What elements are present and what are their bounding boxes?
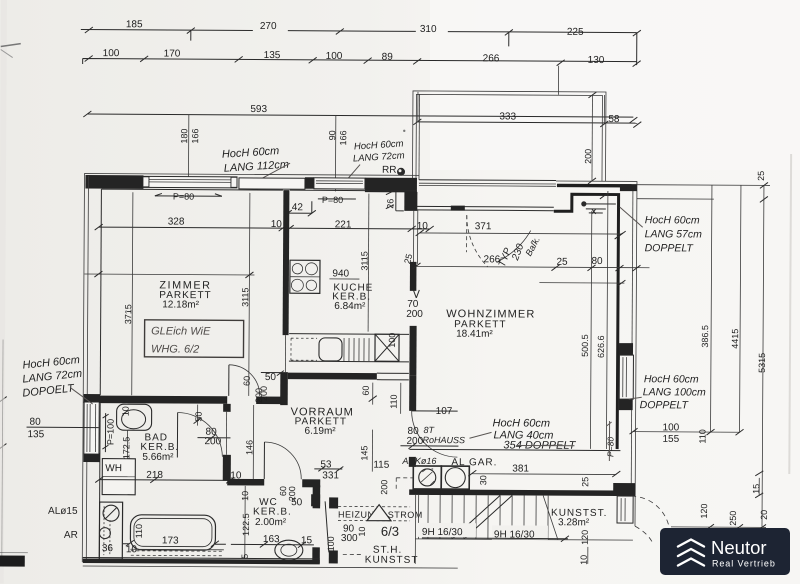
- 172.5: [126, 430, 128, 462]
- washbasin counter: [99, 502, 122, 559]
- dashed balcony door opening: [466, 215, 468, 252]
- svg-text:3115: 3115: [359, 251, 369, 270]
- top dimension row 1: [81, 19, 641, 65]
- bottom thick wall under wohnzimmer: [409, 489, 617, 496]
- svg-text:110: 110: [134, 524, 144, 538]
- svg-text:185: 185: [126, 19, 143, 30]
- svg-text:6.84m²: 6.84m²: [334, 301, 366, 312]
- svg-text:163: 163: [263, 534, 280, 545]
- niche line + AL GAR: [409, 449, 620, 490]
- bad right wall: [223, 404, 231, 481]
- wohnzimmer: [411, 190, 649, 449]
- svg-text:P=80: P=80: [605, 437, 615, 457]
- svg-text:80: 80: [591, 256, 603, 267]
- kitchen door dim 70/200: [413, 290, 419, 298]
- left exterior wall: [82, 176, 101, 562]
- svg-text:328: 328: [168, 216, 185, 227]
- svg-text:DOPPELT: DOPPELT: [645, 242, 695, 254]
- svg-text:ANKø16: ANKø16: [401, 456, 436, 466]
- svg-text:25: 25: [556, 257, 568, 268]
- svg-text:2.00m²: 2.00m²: [255, 517, 287, 528]
- vorraum-wc wall: [227, 479, 264, 486]
- svg-text:626.6: 626.6: [596, 335, 606, 358]
- svg-text:110: 110: [389, 394, 399, 408]
- svg-text:60: 60: [242, 376, 252, 386]
- wc toilet: [275, 540, 303, 560]
- 266 / 25 / 80 dim line: [416, 266, 649, 267]
- svg-text:300: 300: [341, 533, 358, 544]
- svg-text:200: 200: [379, 480, 389, 495]
- svg-text:RοHAUSS: RοHAUSS: [422, 435, 465, 445]
- svg-text:30: 30: [478, 475, 488, 485]
- chevrons: [678, 540, 704, 566]
- svg-text:P=80: P=80: [322, 195, 343, 205]
- svg-text:166: 166: [190, 129, 200, 144]
- P=80 label window2: [318, 195, 356, 205]
- svg-text:25: 25: [580, 477, 590, 487]
- toilet at top: [117, 404, 152, 430]
- svg-text:GLEich WiE: GLEich WiE: [151, 325, 211, 337]
- svg-text:18.41m²: 18.41m²: [456, 329, 493, 340]
- svg-text:221: 221: [335, 219, 352, 230]
- svg-text:90: 90: [327, 130, 337, 140]
- svg-text:500.5: 500.5: [580, 334, 590, 357]
- bad: [95, 404, 255, 560]
- svg-text:172.5: 172.5: [121, 437, 131, 460]
- niche 26 at kitchen corner: [385, 191, 415, 265]
- 371 dim: [420, 233, 622, 234]
- svg-text:15: 15: [301, 535, 313, 546]
- zimmer-kueche wall: [283, 190, 290, 335]
- svg-text:371: 371: [475, 221, 492, 232]
- svg-text:4415: 4415: [730, 329, 740, 349]
- svg-text:170: 170: [164, 48, 181, 59]
- zimmer window: [143, 176, 237, 188]
- svg-text:166: 166: [338, 130, 348, 145]
- svg-text:10: 10: [271, 219, 283, 230]
- svg-text:146: 146: [244, 440, 254, 455]
- svg-text:HοcH 60cm: HοcH 60cm: [644, 373, 699, 385]
- parapet white box: [239, 178, 305, 189]
- stove: [290, 260, 320, 293]
- zimmer bottom wall / bad top wall: [100, 364, 282, 404]
- wohnzimmer top-right recess outer: [552, 181, 637, 526]
- svg-text:386.5: 386.5: [700, 325, 710, 348]
- top dimension row 2: [83, 48, 641, 67]
- svg-text:WH: WH: [105, 463, 122, 474]
- svg-text:120: 120: [699, 503, 709, 518]
- stairwell landing: [83, 476, 459, 568]
- 145: [371, 430, 373, 472]
- bathtub: [130, 515, 215, 550]
- loggia kunstst: [551, 496, 670, 566]
- svg-text:270: 270: [260, 21, 277, 32]
- svg-text:940: 940: [332, 268, 349, 279]
- right margin dims: [605, 170, 771, 530]
- vorraum left wall: [280, 372, 288, 405]
- svg-text:266: 266: [483, 53, 500, 64]
- svg-text:3115: 3115: [240, 288, 250, 307]
- zimmer room: [84, 192, 434, 397]
- 50 rot + 80/200: [197, 405, 199, 426]
- svg-text:10: 10: [126, 544, 138, 555]
- bad door: [177, 413, 222, 457]
- handwritten notes top: [221, 137, 405, 186]
- right wall white band + details: [613, 184, 637, 523]
- svg-text:333: 333: [499, 111, 516, 122]
- vorraum-wohnzimmer wall lower: [409, 376, 417, 467]
- handwritten TYP 230 scribble: [497, 235, 542, 269]
- svg-text:115: 115: [373, 460, 389, 471]
- svg-text:25: 25: [756, 171, 766, 181]
- left wall window (bad): [84, 394, 101, 403]
- svg-text:20: 20: [759, 510, 769, 520]
- top dimension row 3: 593: [83, 103, 637, 123]
- svg-text:218: 218: [146, 470, 163, 481]
- stairs hatching: [415, 495, 633, 542]
- vertical dim lines: [132, 192, 250, 396]
- dimension row 4: 333 / 58: [413, 111, 641, 128]
- svg-text:3715: 3715: [123, 304, 133, 324]
- top wall inner face: [101, 189, 416, 191]
- kueche-vorraum wall: [288, 373, 409, 380]
- svg-text:HocH 60cm: HocH 60cm: [493, 417, 551, 429]
- logo group (not rotated): [660, 528, 790, 575]
- left margin: [0, 339, 99, 560]
- svg-text:KUNSTST: KUNSTST: [365, 555, 419, 566]
- 218 dim: [99, 479, 230, 482]
- horizontal connector in zimmer: [84, 273, 254, 276]
- svg-text:200: 200: [259, 386, 269, 401]
- svg-text:HοcH 60cm: HοcH 60cm: [645, 214, 700, 226]
- svg-text:P=80: P=80: [173, 191, 194, 201]
- svg-text:Real Vertrieb: Real Vertrieb: [712, 559, 776, 569]
- svg-text:42: 42: [292, 202, 304, 213]
- svg-text:130: 130: [588, 55, 605, 66]
- wc door arc: [264, 442, 301, 479]
- svg-text:15: 15: [751, 484, 761, 494]
- 53 / 331: [314, 466, 343, 471]
- svg-text:200: 200: [406, 309, 423, 320]
- handwritten hoch/lang middle: [469, 417, 576, 452]
- svg-text:89: 89: [382, 52, 394, 63]
- svg-text:122.5: 122.5: [241, 513, 251, 536]
- balcony outline top right: [412, 91, 606, 181]
- svg-text:100: 100: [103, 48, 120, 59]
- svg-text:250: 250: [728, 511, 738, 526]
- svg-text:LANG 57cm: LANG 57cm: [645, 228, 703, 240]
- svg-text:593: 593: [250, 104, 267, 115]
- svg-text:LANG 100cm: LANG 100cm: [643, 386, 706, 398]
- kitchen window: [314, 178, 365, 189]
- balcony door glazing band: [419, 180, 556, 187]
- dims right side of bad: [245, 405, 254, 559]
- svg-text:145: 145: [359, 446, 369, 461]
- svg-text:10: 10: [240, 491, 250, 501]
- svg-text:155: 155: [662, 434, 679, 445]
- svg-text:AR: AR: [64, 530, 78, 541]
- svg-text:80: 80: [30, 417, 42, 428]
- zimmer door arc: [229, 365, 260, 396]
- entrance door: [311, 494, 320, 506]
- svg-text:6.19m²: 6.19m²: [304, 426, 336, 437]
- svg-text:8T: 8T: [424, 425, 436, 435]
- svg-text:60: 60: [361, 386, 371, 396]
- wohnzimmer top wall thin double line: [417, 205, 554, 211]
- 42 pier dimension: [284, 199, 316, 216]
- handwritten box: [144, 320, 243, 358]
- svg-text:180: 180: [179, 128, 189, 143]
- svg-text:173: 173: [162, 535, 179, 546]
- svg-text:100: 100: [663, 422, 680, 433]
- svg-text:53: 53: [320, 459, 332, 470]
- svg-text:110: 110: [697, 429, 707, 443]
- wc + bottom walls: [227, 442, 321, 564]
- svg-text:9H 16/30: 9H 16/30: [422, 527, 463, 538]
- svg-text:200: 200: [406, 436, 423, 447]
- kitchen-wohnzimmer wall: [406, 210, 424, 376]
- svg-text:26: 26: [385, 199, 395, 209]
- svg-text:200: 200: [287, 486, 297, 501]
- svg-text:107: 107: [436, 406, 453, 417]
- svg-text:WHG. 6/2: WHG. 6/2: [151, 343, 199, 355]
- svg-text:RR: RR: [382, 165, 397, 176]
- kueche: [289, 193, 410, 362]
- svg-text:ALø15: ALø15: [48, 506, 78, 517]
- svg-text:381: 381: [512, 463, 529, 474]
- washing machines: [413, 466, 441, 489]
- svg-text:100: 100: [326, 536, 336, 551]
- svg-text:120: 120: [580, 530, 590, 545]
- svg-text:12.18m²: 12.18m²: [162, 299, 199, 310]
- svg-text:50: 50: [265, 372, 277, 383]
- svg-text:58: 58: [608, 114, 620, 125]
- P=100 vertical at window: [104, 413, 106, 452]
- svg-text:5315: 5315: [757, 353, 767, 373]
- level mark in recess: [581, 201, 586, 206]
- dotted strip above bottom wall: [131, 551, 223, 556]
- right wall window: [619, 355, 633, 399]
- svg-text:225: 225: [567, 27, 584, 38]
- svg-text:KER.B.: KER.B.: [253, 506, 292, 517]
- svg-text:10: 10: [121, 406, 131, 416]
- svg-text:135: 135: [27, 429, 44, 440]
- wohnzimmer door from vorraum: [411, 411, 457, 457]
- window below bottom wall: [617, 496, 633, 523]
- svg-text:10: 10: [357, 527, 367, 537]
- rotated dims 180/166: [179, 90, 597, 184]
- interior vertical dims 500.5 / 626.6: [590, 191, 607, 449]
- svg-text:3.28m²: 3.28m²: [558, 517, 590, 528]
- svg-text:5.66m²: 5.66m²: [142, 452, 174, 463]
- lower right dims: [671, 526, 766, 529]
- svg-text:310: 310: [420, 24, 437, 35]
- svg-text:6/3: 6/3: [381, 524, 399, 539]
- svg-text:100: 100: [326, 51, 343, 62]
- vertical dim: [367, 194, 370, 332]
- svg-text:135: 135: [264, 50, 281, 61]
- top exterior wall: outer line: [84, 173, 419, 191]
- 100/155 line: [634, 431, 740, 434]
- bottom wall left part: [83, 557, 320, 564]
- vorraum: [258, 370, 465, 495]
- wc right wall: [313, 485, 321, 508]
- svg-text:DOPPELT: DOPPELT: [640, 399, 690, 411]
- WH boxes: [102, 459, 135, 495]
- svg-text:200: 200: [583, 149, 593, 164]
- dims: [231, 543, 314, 545]
- lower counter: sink / drainer / X: [289, 333, 409, 336]
- dashed exterior door swing: [631, 496, 670, 535]
- svg-text:331: 331: [322, 470, 339, 481]
- svg-text:Neutor: Neutor: [711, 537, 767, 558]
- svg-text:36: 36: [102, 543, 114, 554]
- P=80 label window1: [155, 191, 222, 201]
- top wall piers (dark): [85, 175, 143, 189]
- svg-text:100: 100: [387, 333, 397, 348]
- window axis extension lines: [188, 64, 604, 193]
- dim line 328: [99, 227, 430, 229]
- svg-text:P=100: P=100: [105, 419, 115, 445]
- svg-text:10: 10: [579, 555, 589, 565]
